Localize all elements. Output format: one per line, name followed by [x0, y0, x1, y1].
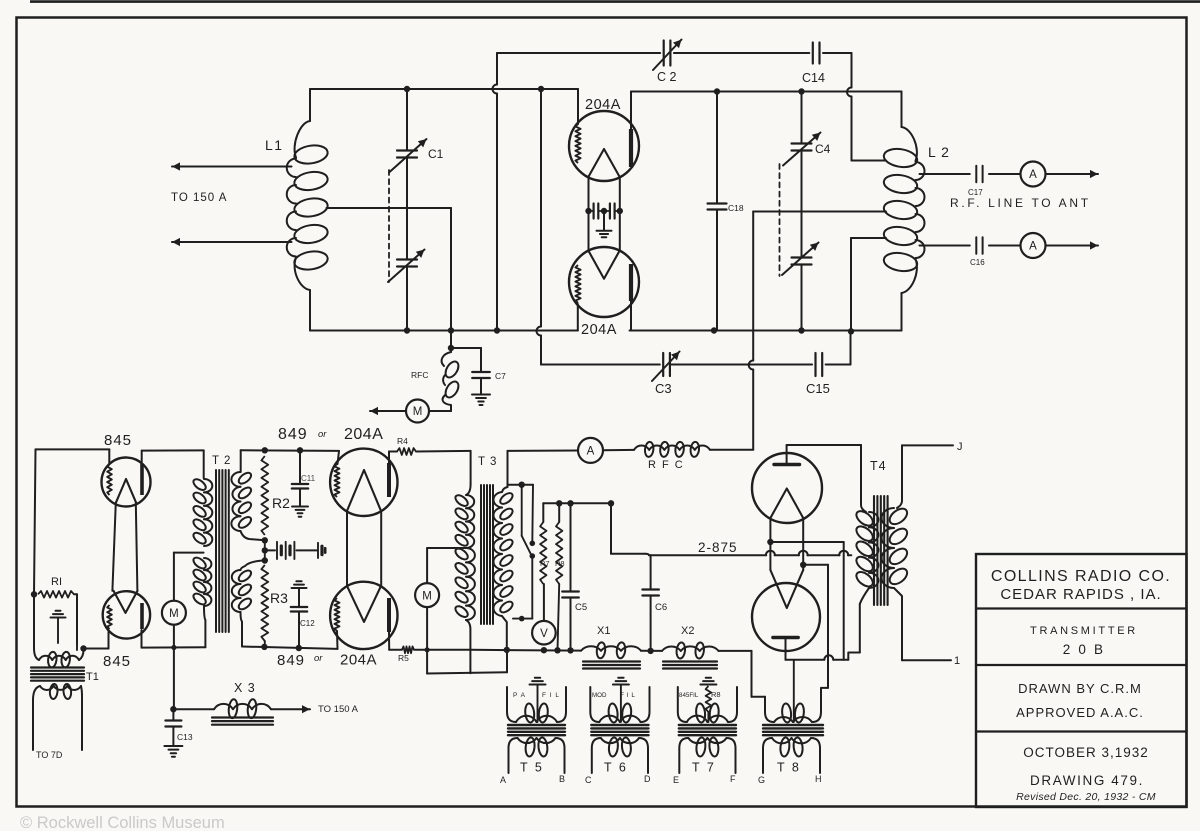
wire 2-875 filament line — [649, 554, 766, 556]
node T3 secondary bottom — [504, 647, 510, 653]
wire 845 filament legs — [112, 502, 115, 590]
transformer T5 core — [508, 724, 565, 726]
wire filament cross lower — [803, 564, 828, 566]
svg-text:V: V — [540, 628, 548, 640]
antenna output line 2 — [920, 245, 970, 247]
ground C7 — [472, 394, 490, 396]
node C11 top — [297, 447, 303, 453]
wire L2 lower tap — [851, 237, 886, 239]
resistor R7 — [542, 503, 544, 522]
svg-text:M: M — [169, 608, 179, 620]
tube V3 plate — [140, 464, 144, 495]
svg-text:F: F — [730, 774, 736, 784]
svg-text:CEDAR RAPIDS , IA.: CEDAR RAPIDS , IA. — [1000, 586, 1161, 603]
svg-text:TO 150 A: TO 150 A — [171, 192, 227, 204]
tube V3 845 upper — [102, 458, 151, 507]
svg-text:C 2: C 2 — [657, 70, 677, 84]
svg-text:C11: C11 — [301, 474, 316, 483]
wire C3 C15 row — [541, 364, 660, 366]
wire L2 center tap to riser — [753, 211, 886, 213]
transformer T7 shield / center tap — [706, 677, 711, 679]
svg-text:MOD: MOD — [592, 692, 607, 699]
svg-text:204A: 204A — [344, 426, 383, 443]
svg-text:C6: C6 — [655, 602, 667, 613]
capacitor C5 — [570, 503, 572, 590]
wire L2 upper tap — [852, 160, 887, 162]
node RFC C7 branch — [448, 345, 454, 351]
svg-text:C3: C3 — [655, 381, 672, 396]
rf choke X1 — [581, 646, 601, 650]
transformer T1 primary — [34, 648, 39, 660]
wire V4 plate to M2 junction — [141, 630, 143, 648]
transformer T3 secondary — [507, 451, 509, 487]
svg-text:C16: C16 — [970, 258, 985, 267]
tube V1 grid — [575, 124, 580, 163]
tube V8 plate cap — [773, 636, 798, 639]
node filament left — [767, 539, 773, 545]
wire to X3 — [173, 708, 214, 710]
tube V7 2-875 upper — [752, 453, 822, 523]
transformer T6 core — [591, 724, 648, 726]
wire tap riser to RFC — [450, 208, 452, 331]
node neutralizing riser top — [538, 86, 544, 92]
node C18 top — [714, 88, 720, 94]
transformer T1 secondary — [33, 686, 40, 700]
tube V4 filament — [114, 591, 138, 613]
tube V6 plate — [387, 598, 391, 632]
svg-text:204A: 204A — [340, 652, 377, 669]
coil L2 — [901, 92, 903, 128]
tube V3 grid — [107, 464, 112, 495]
svg-text:A: A — [1029, 169, 1037, 181]
svg-text:TO 7D: TO 7D — [36, 750, 63, 760]
transformer T5 shield / center tap — [535, 677, 540, 679]
wire M2 bottom — [173, 625, 175, 710]
svg-text:C7: C7 — [495, 371, 506, 381]
svg-text:T4: T4 — [870, 459, 887, 473]
tube V8 filament — [770, 570, 803, 608]
wire bias feed to 2-875 line — [610, 503, 612, 554]
voltmeter V1m — [532, 621, 556, 645]
tube V6 filament — [347, 586, 381, 622]
tube V5 filament — [347, 470, 381, 511]
bias battery nodes — [262, 537, 268, 543]
capacitor C11 — [299, 450, 301, 483]
svg-text:204A: 204A — [585, 97, 621, 113]
wire L1 output tap upper with arrow — [172, 166, 292, 168]
node R3 bottom — [261, 644, 267, 650]
svg-text:C: C — [585, 775, 592, 785]
svg-text:A: A — [1029, 241, 1037, 253]
ammeter A1 — [1021, 162, 1046, 187]
transformer T2 primary upper — [204, 479, 212, 492]
wire rectifier output — [786, 659, 825, 661]
wire 843 vertical — [843, 542, 845, 660]
svg-text:C12: C12 — [300, 619, 315, 628]
svg-text:204A: 204A — [581, 322, 617, 338]
antenna output line 1 — [920, 173, 970, 175]
meter M1 with arrow — [430, 410, 451, 412]
transformer T3 primary — [466, 484, 471, 495]
svg-text:or: or — [314, 653, 323, 664]
svg-text:845: 845 — [103, 653, 131, 670]
svg-text:C18: C18 — [728, 203, 744, 213]
ground filament center — [603, 211, 605, 230]
svg-text:X1: X1 — [597, 625, 610, 637]
rf choke RFC driver — [634, 445, 649, 449]
iron core X2 — [663, 660, 717, 662]
tube V2 grid — [575, 265, 580, 303]
transformer T6 primary bottom — [592, 738, 601, 773]
node C1 bottom — [404, 327, 410, 333]
transformer T8 secondary top — [765, 697, 774, 722]
capacitor C18 — [716, 92, 718, 204]
svg-text:T1: T1 — [86, 671, 99, 683]
wire V7 filament legs — [769, 518, 771, 570]
svg-text:1: 1 — [954, 655, 960, 667]
wire T4 primary bottom lead — [859, 604, 861, 653]
svg-text:TO 150 A: TO 150 A — [318, 704, 359, 715]
transformer T2 primary lower — [204, 558, 211, 570]
ammeter A2 — [1021, 233, 1046, 258]
transformer T7 secondary top — [678, 687, 687, 722]
svg-text:T 6: T 6 — [604, 761, 628, 775]
wire grid lead tube V1 — [577, 89, 579, 124]
svg-text:Revised Dec. 20, 1932 - CM: Revised Dec. 20, 1932 - CM — [1016, 791, 1156, 803]
svg-text:RFC: RFC — [411, 370, 428, 380]
node L2 lower tap junction — [848, 328, 854, 334]
svg-text:R.F. LINE TO ANT: R.F. LINE TO ANT — [950, 196, 1091, 210]
svg-text:L 2: L 2 — [928, 144, 950, 160]
svg-text:L1: L1 — [265, 137, 284, 153]
node T1 845 junction — [80, 645, 86, 651]
tube V4 grid — [107, 605, 112, 629]
capacitor C6 — [650, 555, 652, 588]
wire R4 to T3 primary top — [470, 451, 472, 484]
wire V3 plate to T2 primary — [142, 449, 204, 451]
capacitor C3 — [662, 353, 664, 376]
svg-text:R4: R4 — [397, 436, 408, 446]
wire filament cross upper — [770, 541, 843, 543]
svg-text:A: A — [587, 446, 595, 458]
ground C13 — [164, 745, 182, 747]
svg-text:or: or — [318, 429, 327, 440]
wire tank bottom rail left — [310, 330, 578, 332]
wire driver cathode rail lower-left — [242, 647, 338, 649]
transformer T4 core — [873, 496, 875, 605]
wire driver plate feed line — [508, 450, 579, 452]
wire drop below rail at M3 — [426, 650, 428, 674]
transformer T5 secondary top — [507, 687, 516, 722]
wire R7 R8 C5 top rail — [543, 502, 611, 504]
tube V5 grid — [335, 464, 340, 497]
node C1 top — [404, 86, 410, 92]
node C4 top — [798, 88, 804, 94]
svg-text:849: 849 — [277, 652, 305, 669]
switch across T3 secondary — [508, 484, 522, 486]
wire R1 right — [74, 593, 77, 595]
wire X3 to 150A with arrow — [271, 708, 310, 710]
rf choke X2 — [662, 646, 681, 650]
wire rail to T8 — [719, 650, 752, 652]
svg-text:C1: C1 — [428, 147, 444, 161]
svg-text:E: E — [673, 775, 679, 785]
svg-text:R7: R7 — [540, 559, 550, 568]
wire V7 plate to T4 — [787, 444, 861, 446]
svg-text:DRAWN BY C.R.M: DRAWN BY C.R.M — [1018, 681, 1142, 696]
transformer T2 secondary lower — [241, 561, 265, 571]
wire lower cathode rail — [470, 649, 581, 652]
tube V2 plate — [629, 264, 633, 301]
node C4 bottom — [798, 327, 804, 333]
transformer T3 core — [480, 485, 482, 624]
svg-text:X2: X2 — [681, 625, 694, 637]
wire T1 secondary leads TO 7D — [32, 700, 34, 750]
svg-text:DRAWING 479.: DRAWING 479. — [1030, 773, 1144, 788]
svg-text:P A: P A — [513, 692, 526, 699]
capacitor C16 — [975, 237, 977, 254]
wire top grid rail — [310, 88, 578, 90]
svg-text:845FIL: 845FIL — [679, 692, 699, 699]
tube V7 plate cap — [786, 445, 788, 464]
wire M3 top to T3 primary tap — [426, 548, 428, 583]
transformer T8 core — [763, 724, 823, 726]
wire 845 grid input top — [36, 448, 110, 450]
wire L1 center tap — [327, 207, 452, 209]
wire 849 filament legs — [346, 511, 348, 586]
capacitor C13 — [172, 709, 174, 719]
transformer T6 secondary top — [590, 687, 599, 722]
wire plate rail top right — [631, 91, 902, 93]
svg-text:J: J — [957, 441, 963, 453]
svg-text:R3: R3 — [270, 590, 288, 606]
transformer T8 primary bottom — [763, 738, 772, 773]
tube V3 filament — [116, 479, 136, 502]
capacitor C2 — [663, 41, 665, 66]
ammeter A3 — [578, 438, 603, 463]
svg-text:D: D — [644, 774, 651, 784]
wire grid lead tube V2 — [577, 304, 579, 331]
node C12 bottom — [296, 645, 302, 651]
svg-text:COLLINS RADIO CO.: COLLINS RADIO CO. — [991, 568, 1171, 585]
svg-text:APPROVED A.A.C.: APPROVED A.A.C. — [1016, 705, 1144, 720]
node tap riser — [448, 327, 454, 333]
wire T1 junction to V4 grid — [84, 648, 109, 650]
filament center-tap capacitors between V1 V2 — [585, 208, 591, 214]
svg-text:OCTOBER 3,1932: OCTOBER 3,1932 — [1023, 745, 1149, 760]
svg-text:G: G — [758, 775, 765, 785]
transformer T1 shield — [56, 610, 61, 612]
svg-text:R8: R8 — [555, 559, 565, 568]
wire M2 top to T2 primary tap — [173, 553, 175, 601]
svg-text:C5: C5 — [575, 602, 587, 613]
resistor R3 — [261, 565, 268, 641]
svg-text:R8: R8 — [711, 690, 721, 699]
iron core X3 — [212, 716, 273, 718]
rf choke RFC top — [442, 352, 451, 366]
svg-text:R5: R5 — [398, 653, 409, 663]
svg-text:M: M — [413, 406, 423, 418]
tube V6 grid — [335, 598, 340, 631]
svg-text:T 8: T 8 — [777, 761, 801, 775]
svg-text:C4: C4 — [815, 142, 831, 156]
node R8 bottom — [554, 647, 560, 653]
svg-text:TRANSMITTER: TRANSMITTER — [1030, 625, 1138, 637]
tube V2 filament — [588, 251, 619, 279]
meter M3 — [415, 583, 439, 607]
transformer T8 center tap — [793, 660, 795, 722]
capacitor C15 — [814, 353, 816, 376]
node C6 bottom — [647, 648, 653, 654]
iron core X1 — [583, 660, 640, 662]
transformer T4 primary — [861, 445, 866, 512]
bias battery — [265, 549, 275, 551]
transformer T2 core — [215, 470, 217, 632]
svg-text:F I L: F I L — [542, 692, 560, 699]
node C18 bottom — [711, 327, 717, 333]
resistor R1 — [38, 591, 74, 598]
svg-text:RI: RI — [51, 576, 62, 588]
wire outer top right vertical — [851, 53, 853, 88]
wire to T8 right — [827, 565, 829, 688]
svg-text:R F C: R F C — [648, 459, 684, 471]
capacitor C7 — [451, 347, 481, 349]
svg-text:T 3: T 3 — [478, 456, 497, 468]
svg-text:2 0 B: 2 0 B — [1063, 642, 1106, 657]
svg-text:C14: C14 — [802, 71, 825, 85]
title block frame — [976, 554, 1187, 807]
wire L1 output tap lower with arrow — [172, 241, 292, 243]
transformer T7 core — [679, 724, 736, 726]
wire driver grid rail top — [241, 449, 339, 452]
transformer T2 secondary upper — [240, 450, 242, 472]
resistor R4 — [389, 451, 397, 453]
tube V6 849/204A lower — [330, 582, 397, 649]
wire J terminal — [902, 444, 953, 446]
wire RFC to riser corner — [710, 449, 753, 451]
wire 845 left vertical — [34, 449, 36, 594]
wire tank bottom rail right — [630, 330, 902, 332]
node C5 bottom — [567, 647, 573, 653]
tube V7 filament — [770, 489, 803, 519]
tube V1 plate — [629, 129, 633, 167]
svg-text:845: 845 — [104, 432, 132, 449]
svg-text:F I L: F I L — [620, 692, 636, 699]
svg-text:C15: C15 — [806, 381, 830, 396]
transformer T4 secondary — [897, 445, 902, 508]
wire riser x753 to driver RFC — [752, 212, 754, 361]
tube V5 849/204A upper — [330, 449, 397, 516]
svg-text:2-875: 2-875 — [698, 540, 738, 555]
scan edge line top — [30, 0, 1200, 3]
wire rfc stem — [450, 331, 452, 353]
wire outer top — [497, 52, 660, 54]
tube V4 plate — [140, 603, 144, 629]
capacitor C14 — [812, 43, 814, 64]
rf choke X3 — [214, 704, 233, 709]
capacitor C17 — [975, 166, 977, 182]
wire short drop T3 primary end — [469, 650, 471, 673]
svg-text:T 2: T 2 — [212, 455, 231, 467]
node R1 left — [31, 591, 37, 597]
resistor R5 — [389, 649, 402, 651]
svg-text:T 7: T 7 — [692, 761, 716, 775]
tube V4 845 lower — [103, 591, 150, 638]
tube V5 plate — [387, 463, 391, 497]
node R2 top — [262, 447, 268, 453]
tube V1 204A upper PA — [569, 111, 639, 181]
transformer T1 core — [31, 666, 84, 668]
tube V8 2-875 lower — [752, 583, 820, 651]
wire 1 terminal — [902, 659, 951, 661]
svg-text:X 3: X 3 — [234, 681, 256, 695]
transformer T5 primary bottom — [509, 738, 518, 773]
coil L1 — [309, 89, 311, 121]
resistor R2 — [261, 456, 268, 535]
svg-text:849: 849 — [278, 426, 308, 443]
capacitor C4 split-stator with gang line — [801, 92, 803, 144]
svg-text:© Rockwell Collins Museum: © Rockwell Collins Museum — [20, 814, 225, 831]
transformer T6 shield / center tap — [618, 677, 623, 679]
tube V2 204A lower PA — [569, 247, 639, 317]
node filament right — [800, 562, 806, 568]
node X3 C13 — [170, 706, 176, 712]
svg-text:M: M — [422, 590, 432, 602]
wire outer top loop left vertical — [496, 53, 498, 85]
capacitor C1 split-stator with gang line — [406, 89, 408, 150]
node switch coil — [519, 616, 525, 622]
meter M2 — [162, 601, 186, 625]
capacitor C12 with shield top — [296, 580, 301, 582]
svg-text:B: B — [559, 774, 565, 784]
tube V1 filament — [588, 149, 619, 177]
svg-text:R2: R2 — [272, 495, 290, 511]
svg-text:T 5: T 5 — [520, 761, 544, 775]
svg-text:A: A — [500, 775, 506, 785]
wire M3 bottom to rail — [426, 607, 428, 650]
node C2 riser bottom — [494, 327, 500, 333]
wire T8 right lead jog — [821, 688, 828, 698]
svg-text:H: H — [815, 774, 822, 784]
node V meter bottom — [541, 647, 547, 653]
transformer T7 primary bottom — [679, 738, 688, 773]
wire neutralizing riser x541 — [540, 89, 542, 327]
resistor R8 — [558, 503, 560, 522]
svg-text:C13: C13 — [177, 732, 193, 742]
